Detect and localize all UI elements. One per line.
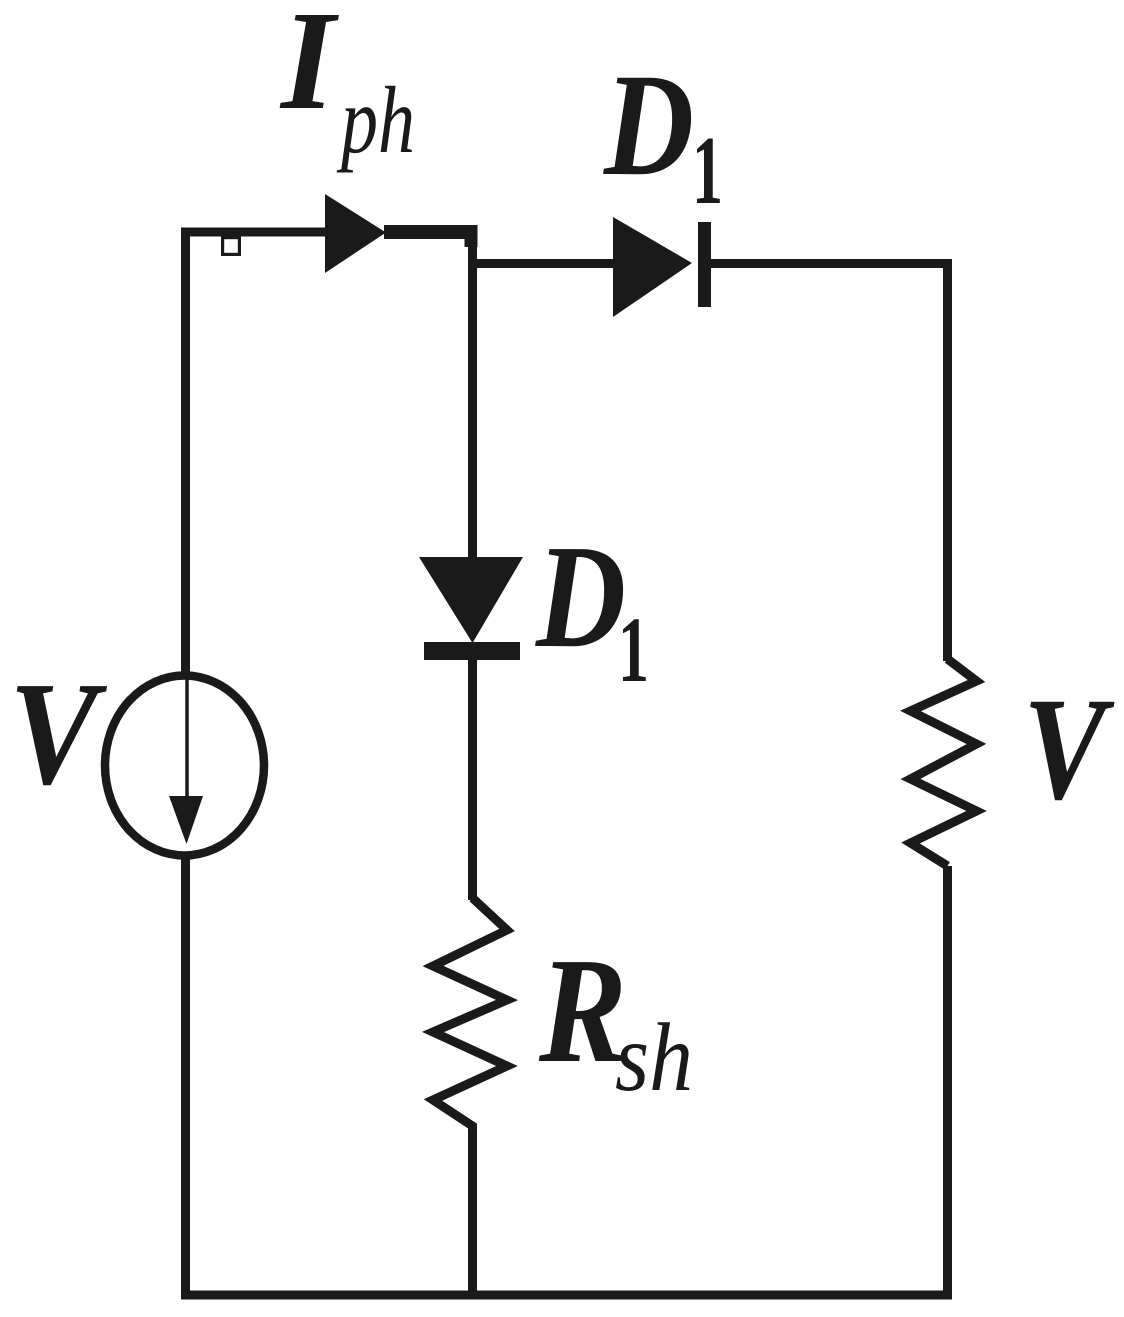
svg-text:sh: sh <box>615 1004 693 1111</box>
svg-text:1: 1 <box>618 599 649 702</box>
svg-text:I: I <box>279 0 340 139</box>
svg-text:ph: ph <box>336 67 415 173</box>
svg-text:R: R <box>538 926 627 1094</box>
svg-text:D: D <box>534 515 626 679</box>
svg-text:1: 1 <box>692 117 723 225</box>
svg-text:D: D <box>602 43 694 206</box>
svg-text:V: V <box>1023 667 1115 830</box>
svg-text:V: V <box>9 652 107 816</box>
